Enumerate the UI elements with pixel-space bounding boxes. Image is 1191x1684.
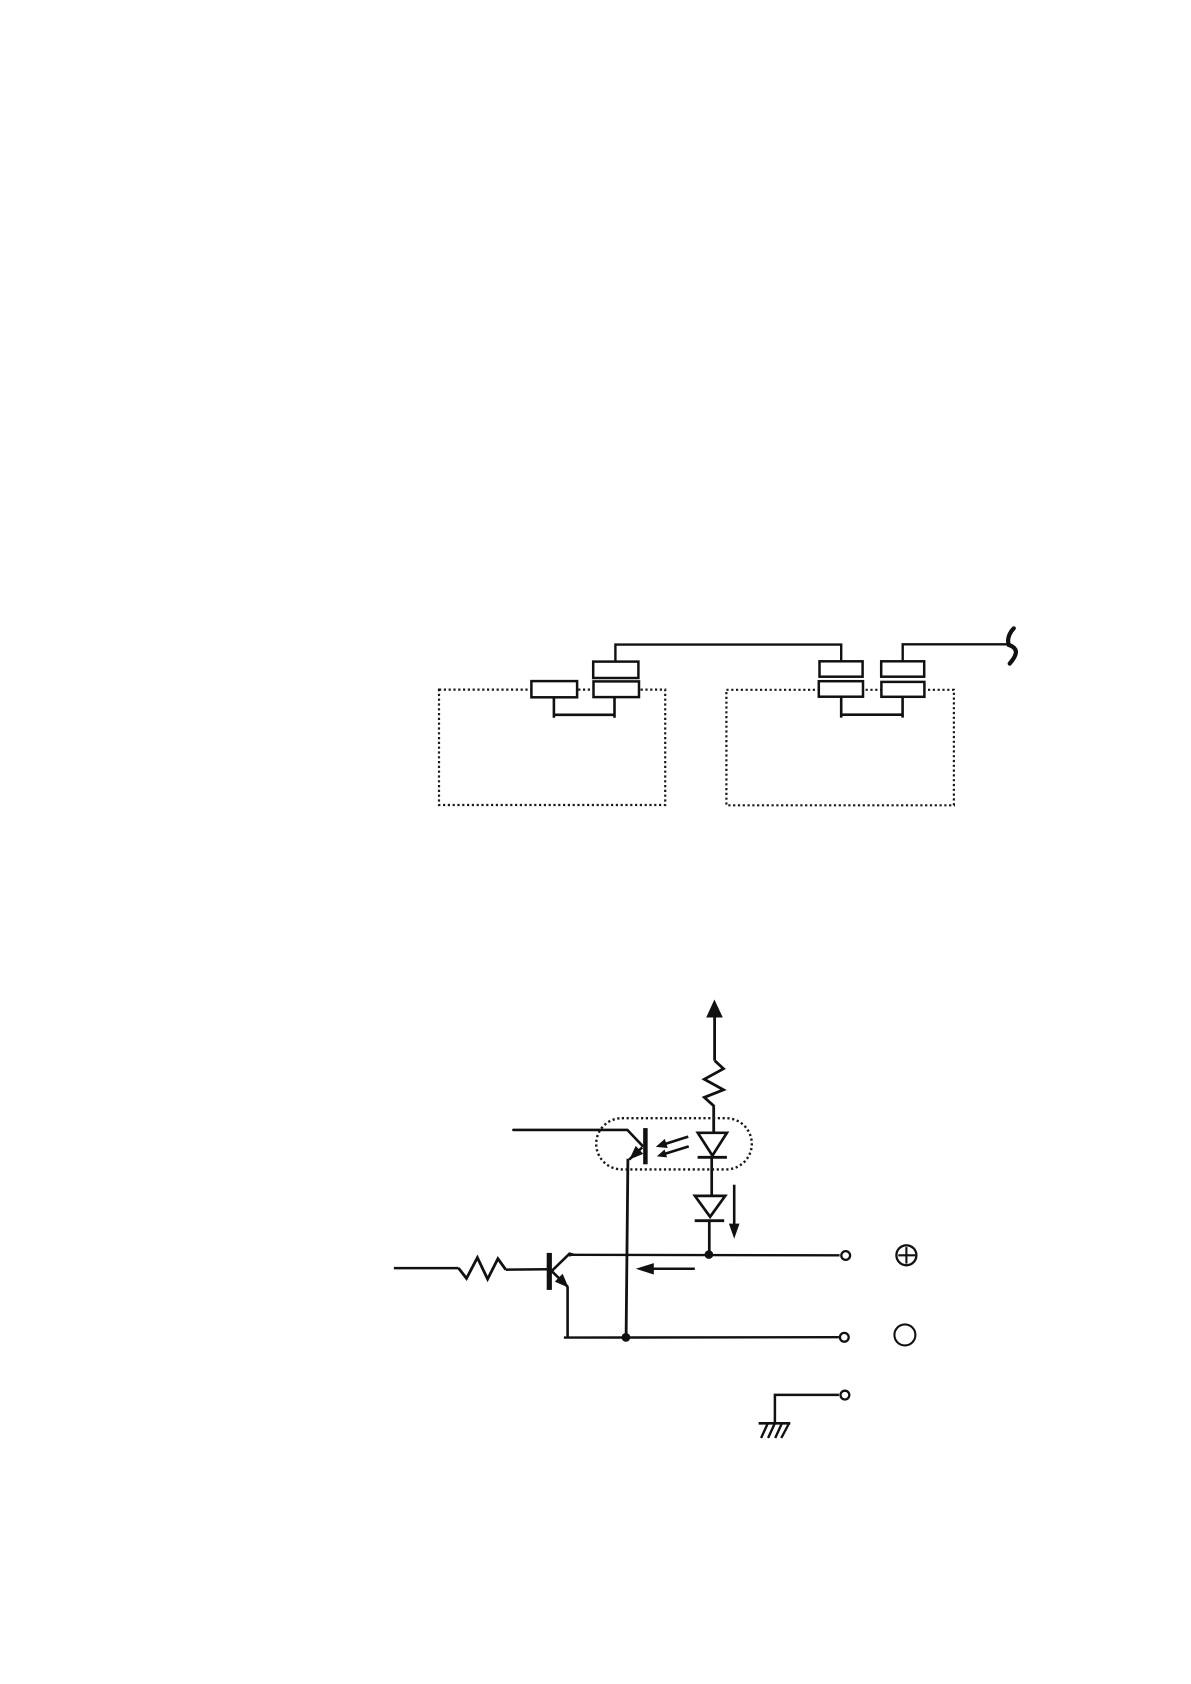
input wire (left) — [394, 1267, 459, 1270]
current arrow down (beside D2) — [733, 1185, 736, 1226]
U wire in box 2 (connector C to connector D) — [840, 697, 904, 718]
power arrow up (supply) — [713, 1016, 716, 1061]
output line 1 (plus) — [570, 1254, 840, 1257]
wire: resistor R2 to LED — [712, 1106, 715, 1133]
wire: cable from left connector pair up and across to right box — [615, 645, 841, 662]
resistor R1 (horizontal zigzag) — [459, 1258, 506, 1280]
transistor Q1 base bar — [547, 1253, 552, 1290]
current arrow left (on output line 1) — [653, 1268, 695, 1271]
ground symbol tick 3 — [775, 1424, 781, 1438]
wire: from right connector pair up and right to cable break — [903, 644, 1011, 661]
opto phototransistor collector wire (from left) — [513, 1130, 642, 1146]
cable break squiggle — [1008, 628, 1016, 663]
connector A (single, box 1) — [531, 681, 577, 697]
ground symbol tick 2 — [768, 1424, 774, 1438]
connector pair D lower (box 2) — [881, 682, 924, 697]
ground symbol tick 1 — [761, 1424, 767, 1438]
connector pair B upper (box 1) — [593, 662, 638, 678]
minus terminal symbol (open circle) — [894, 1324, 915, 1345]
junction node on output line 2 — [622, 1333, 631, 1342]
light arrow 2 (LED to phototransistor) — [656, 1142, 690, 1160]
opto-coupler U1 capsule (dotted stadium) — [596, 1118, 752, 1169]
dotted box: device 2 — [726, 690, 954, 806]
wire: opto emitter down to output line 2 — [626, 1159, 628, 1338]
connector pair C lower (box 2) — [819, 681, 863, 697]
ground symbol tick 4 — [781, 1424, 788, 1438]
terminal circle on output line 1 — [841, 1251, 850, 1260]
wire: R1 to transistor base — [506, 1268, 548, 1271]
transistor Q1 emitter with arrow — [552, 1271, 568, 1287]
wire: D2 to node on output line 1 — [708, 1221, 711, 1255]
wire: Q1 emitter down to output line 2 — [566, 1287, 569, 1338]
connector pair B lower (box 1) — [594, 681, 640, 697]
dotted box: device 1 — [439, 690, 665, 805]
diode D2 cathode bar — [695, 1219, 725, 1222]
opto phototransistor emitter — [629, 1147, 642, 1159]
connector pair C upper (box 2) — [820, 661, 863, 676]
diode D2 triangle — [695, 1196, 725, 1217]
opto LED cathode bar — [698, 1156, 727, 1159]
U wire in box 1 (connector A to connector B) — [553, 697, 616, 718]
connector pair D upper (box 2) — [881, 661, 924, 676]
plus terminal symbol — [896, 1245, 916, 1265]
opto phototransistor base bar — [643, 1128, 648, 1164]
output line 2 (minus) — [564, 1336, 839, 1339]
terminal circle on output line 2 — [840, 1333, 849, 1342]
transistor Q1 collector — [552, 1253, 570, 1271]
light arrow 1 (LED to phototransistor) — [654, 1132, 689, 1151]
ground wire — [775, 1395, 839, 1423]
terminal circle on ground wire — [841, 1391, 850, 1400]
resistor R2 (vertical zigzag) — [704, 1061, 723, 1107]
junction node on output line 1 — [705, 1250, 714, 1259]
ground symbol bar — [759, 1422, 791, 1425]
opto LED triangle (anode) — [698, 1133, 727, 1156]
wire: LED to diode D2 — [710, 1157, 713, 1196]
